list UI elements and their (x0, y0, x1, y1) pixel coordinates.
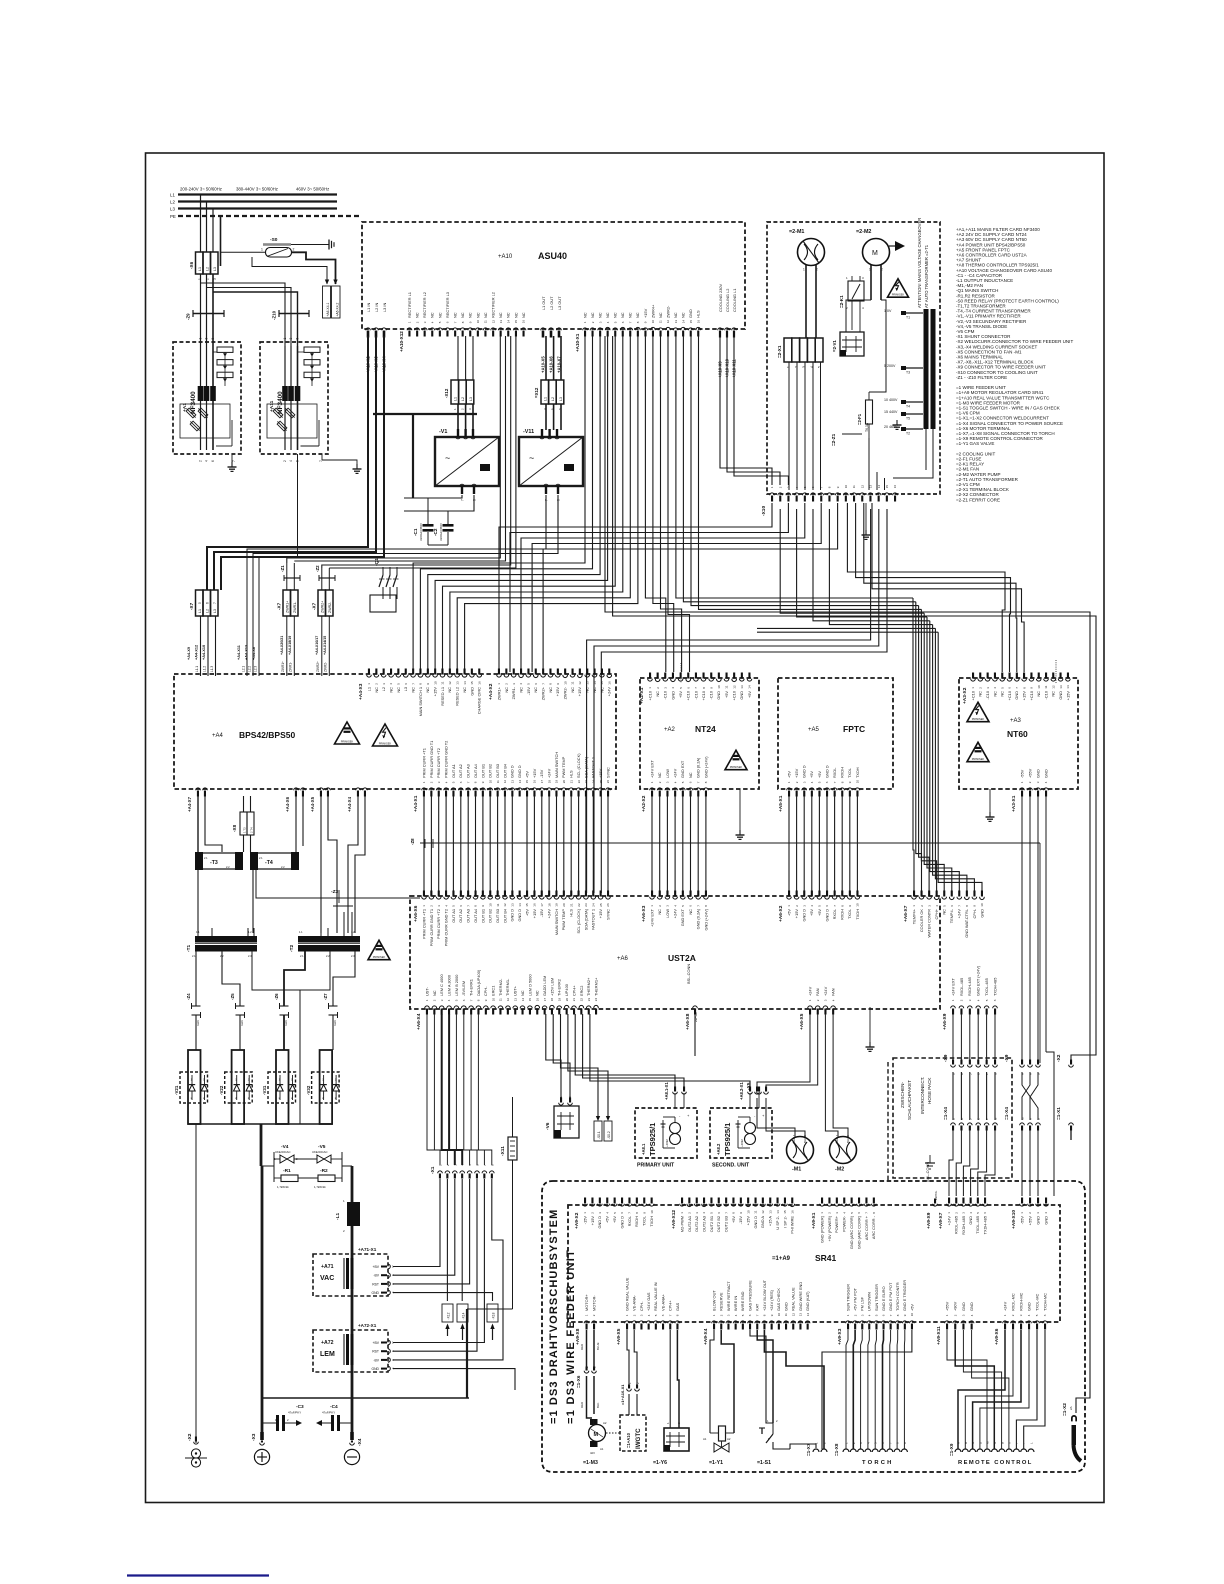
svg-text:RESERVE: RESERVE (719, 1292, 724, 1311)
svg-text:NC: NC (396, 687, 401, 693)
svg-text:+2092: +2092 (665, 1139, 669, 1147)
svg-text:16: 16 (893, 485, 897, 489)
svg-text:15: 15 (525, 903, 529, 907)
svg-text:GND: GND (469, 687, 474, 696)
svg-text:+A8.1-X1: +A8.1-X1 (664, 1082, 669, 1100)
svg-text:A1: A1 (600, 1447, 604, 1451)
svg-text:+15V: +15V (433, 687, 438, 697)
svg-text:10: 10 (717, 685, 721, 689)
weldcurrent socket -X2 (185, 1433, 207, 1467)
svg-text:16: 16 (533, 780, 537, 784)
svg-text:BPS42/BPS50: BPS42/BPS50 (239, 730, 295, 740)
wire ZWR1 drops (287, 563, 295, 590)
wires T1 to chokes (196, 951, 240, 1050)
svg-text:+55V: +55V (1027, 1216, 1032, 1226)
svg-text:THERM2+: THERM2+ (586, 977, 591, 996)
svg-text:MAIN SWITCH: MAIN SWITCH (554, 909, 559, 935)
svg-text:+24V EXT: +24V EXT (950, 978, 955, 996)
svg-text:=2-K1: =2-K1 (839, 295, 844, 308)
svg-text:-15V: -15V (539, 769, 544, 778)
mains switch -Q1 (370, 558, 399, 612)
svg-text:GND: GND (968, 1216, 973, 1225)
svg-text:12: 12 (448, 681, 452, 685)
wires X9 to A9-X7 (949, 1130, 995, 1196)
wire V11 out a (285, 495, 546, 549)
hatch mark (A3-X2) (1055, 660, 1057, 684)
svg-text:UP400: UP400 (564, 983, 569, 996)
wire L2 bus (178, 200, 337, 202)
connector +A4-X3 row (358, 669, 482, 717)
connector +A10-X12 row (399, 292, 526, 352)
svg-text:14: 14 (593, 681, 597, 685)
svg-text:-Z8: -Z8 (410, 838, 415, 845)
svg-text:ZWR1+: ZWR1+ (496, 686, 501, 700)
svg-text:GND: GND (1026, 1302, 1031, 1311)
svg-text:19: 19 (558, 998, 562, 1002)
svg-text:-V31: -V31 (262, 1085, 267, 1095)
thermo controller +A8.1 (primary) (635, 1108, 697, 1169)
cpm =2-V1 (832, 332, 864, 356)
svg-text:12: 12 (503, 903, 507, 907)
svg-text:-X14: -X14 (462, 1312, 466, 1319)
svg-text:+A4-X14/15: +A4-X14/15 (323, 636, 327, 655)
svg-text:2.1: 2.1 (259, 856, 263, 860)
connector +A9-X10 row (1011, 1198, 1048, 1230)
svg-text:=1-X4: =1-X4 (1004, 1107, 1010, 1120)
wires T3 path (198, 796, 420, 933)
svg-text:REAL VALUE: REAL VALUE (791, 1287, 796, 1311)
svg-text:-C2: -C2 (433, 528, 438, 536)
svg-text:+5V: +5V (612, 1216, 617, 1223)
svg-text:14: 14 (518, 903, 522, 907)
svg-text:NC: NC (475, 312, 480, 318)
wire -Z8 long link (410, 838, 1040, 1063)
svg-text:RST: RST (372, 1282, 379, 1286)
svg-text:BSL-CONN: BSL-CONN (925, 1162, 930, 1182)
svg-text:RXDH-485: RXDH-485 (967, 977, 972, 996)
svg-text:NC: NC (582, 312, 587, 318)
title WIRE FEEDER UNIT (565, 1249, 577, 1424)
connector +A5-X1 row (778, 765, 860, 812)
svg-text:+15V: +15V (532, 909, 537, 919)
svg-text:3300uF/450V: 3300uF/450V (419, 523, 423, 541)
svg-text:L2: L2 (170, 200, 175, 205)
svg-text:47uF/PKY: 47uF/PKY (322, 1411, 335, 1415)
svg-text:INTERCONNECT.: INTERCONNECT. (920, 1077, 925, 1114)
filter core -Z9 (186, 310, 225, 320)
svg-text:SECOND. UNIT: SECOND. UNIT (712, 1163, 750, 1169)
svg-text:14: 14 (681, 320, 685, 324)
capacitor -C2 (433, 511, 454, 545)
warning triangle (cooling) (888, 279, 909, 297)
connector +A4-X6 (285, 788, 305, 812)
svg-text:NC: NC (462, 687, 467, 693)
svg-text:+A6-X4.2: +A6-X4.2 (336, 302, 340, 316)
svg-text:NC: NC (620, 312, 625, 318)
svg-text:-15V: -15V (582, 1216, 587, 1225)
svg-text:+15V: +15V (555, 687, 560, 697)
svg-text:14: 14 (463, 681, 467, 685)
connector +A9-X6 row (994, 1292, 1047, 1345)
svg-text:+A9-X11: +A9-X11 (936, 1326, 942, 1345)
svg-text:13: 13 (740, 685, 744, 689)
wire NT60 gnd stub (989, 789, 991, 812)
svg-text:=2-M1: =2-M1 (789, 229, 804, 235)
wires Y1 up (710, 1330, 734, 1433)
svg-text:L2: L2 (206, 267, 210, 271)
wire PE drop (220, 216, 222, 266)
svg-text:11: 11 (659, 320, 663, 323)
svg-text:11: 11 (852, 485, 856, 488)
svg-text:=1-Y6: =1-Y6 (653, 1460, 667, 1466)
svg-text:-Z4: -Z4 (186, 993, 191, 1000)
capacitor -C4 (316, 1404, 352, 1431)
mains filter card +A11 NF3400 (260, 338, 328, 463)
svg-text:GADD LEM: GADD LEM (542, 976, 547, 996)
wires NT60 to X10 long (1022, 796, 1054, 1196)
svg-text:22: 22 (577, 903, 581, 907)
fan =2-M1 (789, 229, 825, 272)
connector +A6-X7 row (903, 891, 984, 938)
svg-text:18: 18 (547, 903, 551, 907)
svg-text:NT60: NT60 (1007, 729, 1028, 739)
ground (NT24) (736, 830, 745, 839)
wires cooling internals (789, 300, 933, 490)
svg-text:LOW: LOW (665, 769, 670, 778)
svg-text:TXDL-MC: TXDL-MC (1034, 1294, 1039, 1311)
svg-text:FASTOUT 1: FASTOUT 1 (591, 757, 596, 778)
svg-text:COOLER OK: COOLER OK (919, 909, 924, 933)
svg-text:+A6-X6: +A6-X6 (413, 905, 419, 922)
label +A5 FPTC (808, 724, 865, 734)
connector =1-X8 (834, 1442, 907, 1456)
svg-text:RESED L2: RESED L2 (455, 687, 460, 706)
svg-text:+A3: +A3 (1010, 718, 1022, 724)
wire horizontal weld bus (262, 1397, 469, 1399)
svg-text:+5V: +5V (747, 691, 752, 698)
svg-text:WIRE RETRACT: WIRE RETRACT (726, 1281, 731, 1311)
connector +A9-X5 row (616, 1277, 680, 1345)
svg-text:+A9-X9: +A9-X9 (926, 1212, 932, 1229)
svg-text:GND: GND (1014, 691, 1019, 700)
svg-text:NC: NC (688, 909, 693, 915)
svg-text:+A72-X1: +A72-X1 (358, 1323, 377, 1328)
svg-text:TXDL: TXDL (847, 908, 852, 919)
svg-text:M: M (872, 250, 878, 257)
svg-text:3: 3 (289, 338, 293, 340)
svg-text:4: 4 (205, 460, 209, 462)
svg-text:THERM1+: THERM1+ (593, 977, 598, 996)
svg-text:-X9: -X9 (1004, 1054, 1010, 1062)
svg-text:TH-ERR1: TH-ERR1 (469, 979, 474, 996)
svg-text:GND D: GND D (824, 765, 829, 778)
svg-text:NC: NC (437, 312, 442, 318)
primary rectifier -V1 (435, 429, 499, 501)
ground + cap (feeder entry) (925, 1155, 935, 1169)
svg-text:3: 3 (205, 338, 209, 340)
wire ZWR2 drops (322, 568, 330, 590)
svg-text:+24V: +24V (957, 909, 962, 919)
svg-text:12: 12 (732, 685, 736, 689)
svg-text:NC: NC (460, 312, 465, 318)
svg-text:GND D: GND D (510, 765, 515, 778)
svg-text:5: 5 (198, 602, 202, 604)
svg-text:ZWR2+: ZWR2+ (321, 601, 325, 613)
connector =1-X4 (right) (1004, 1107, 1041, 1131)
svg-text:NC: NC (518, 687, 523, 693)
svg-text:SCL (CLOCK): SCL (CLOCK) (576, 908, 581, 933)
svg-text:GND E TRIGGER: GND E TRIGGER (902, 1280, 907, 1311)
svg-text:+A3-X1: +A3-X1 (1011, 795, 1017, 812)
svg-text:TPS925/1: TPS925/1 (648, 1123, 657, 1156)
svg-text:Ferrit: Ferrit (197, 1020, 200, 1026)
svg-text:RXDL-485: RXDL-485 (959, 978, 964, 996)
svg-text:TXDH: TXDH (855, 767, 860, 778)
hatch mark (A2-X1) (680, 663, 682, 683)
svg-text:+A9-X5: +A9-X5 (616, 1328, 622, 1345)
svg-text:L3: L3 (559, 397, 563, 401)
svg-text:L3: L3 (469, 397, 473, 401)
svg-text:-X10: -X10 (761, 506, 767, 516)
svg-text:-V22: -V22 (219, 1085, 224, 1095)
svg-text:+5V (POWER): +5V (POWER) (827, 1215, 832, 1241)
svg-text:+A4-X13: +A4-X13 (245, 645, 249, 660)
svg-text:12: 12 (506, 998, 510, 1002)
wire feeder unit =1 (box) (542, 1181, 1085, 1472)
svg-text:CPH-: CPH- (639, 1301, 644, 1311)
svg-text:VE-ANA+: VE-ANA+ (660, 1294, 665, 1311)
svg-text:GND E EURO: GND E EURO (881, 1286, 886, 1311)
svg-text:4: 4 (289, 460, 293, 462)
svg-text:15: 15 (600, 681, 604, 685)
wire mid drop (260, 1124, 263, 1166)
svg-text:2: 2 (794, 366, 798, 368)
svg-text:TXDH-485: TXDH-485 (982, 1216, 987, 1234)
current transformer -T3 (195, 852, 243, 870)
wire motor leads (580, 1330, 600, 1418)
wires X12b to -V11 (546, 336, 561, 430)
svg-text:RECTIFIER L2: RECTIFIER L2 (491, 292, 496, 318)
svg-text:PWM TEMP: PWM TEMP (561, 909, 566, 931)
svg-text:L3 IN: L3 IN (382, 303, 387, 312)
wire L2 feed (214, 336, 376, 590)
svg-text:NC: NC (415, 312, 420, 318)
svg-text:AT AUTO TRANSFORMER =2-T1: AT AUTO TRANSFORMER =2-T1 (924, 244, 929, 308)
svg-text:A1: A1 (703, 1437, 707, 1441)
svg-text:25: 25 (599, 903, 603, 907)
svg-text:GND REAL VALUE: GND REAL VALUE (624, 1277, 629, 1311)
svg-text:20: 20 (562, 903, 566, 907)
svg-text:+A6-X7: +A6-X7 (903, 905, 909, 922)
current transformer -T4 (250, 852, 299, 870)
svg-text:+A5: +A5 (808, 727, 820, 733)
wire =1-X1 stub (1070, 1130, 1072, 1140)
svg-text:L2 OUT: L2 OUT (549, 296, 554, 310)
svg-text:13: 13 (455, 681, 459, 685)
wire weld minus (thick) (261, 1166, 264, 1440)
svg-text:-Z7: -Z7 (323, 993, 328, 1000)
svg-text:10: 10 (650, 1210, 654, 1214)
svg-text:GND: GND (371, 1291, 379, 1295)
svg-text:NC: NC (592, 687, 597, 693)
svg-text:16: 16 (697, 320, 701, 324)
weld connector =1-X2 (1062, 1403, 1083, 1461)
svg-text:19: 19 (555, 903, 559, 907)
svg-text:-M2: -M2 (835, 1167, 844, 1173)
svg-text:+A4-X11: +A4-X11 (237, 645, 241, 660)
svg-text:24: 24 (592, 903, 596, 907)
svg-text:2: 2 (293, 248, 295, 252)
svg-text:IWGTC: IWGTC (635, 1428, 642, 1449)
wire weld to feeder (467, 1308, 513, 1310)
svg-text:NC: NC (513, 312, 518, 318)
terminal -X11 (500, 1137, 517, 1160)
wire L3 drop (212, 209, 214, 253)
svg-text:1,7kW/2k: 1,7kW/2k (314, 1185, 326, 1189)
svg-text:THERM1-: THERM1- (505, 978, 510, 996)
svg-text:ZWR2+: ZWR2+ (541, 686, 546, 700)
svg-text:+A4-X3: +A4-X3 (358, 683, 364, 700)
svg-text:=1-M3: =1-M3 (583, 1460, 598, 1466)
svg-text:GND A: GND A (760, 1216, 765, 1229)
svg-text:RECTIFIER L1: RECTIFIER L1 (407, 292, 412, 318)
svg-text:1: 1 (261, 248, 263, 252)
svg-text:16: 16 (477, 681, 481, 685)
svg-text:2A: 2A (1069, 1406, 1073, 1410)
svg-text:+15V LEM: +15V LEM (549, 978, 554, 996)
svg-text:22: 22 (577, 780, 581, 784)
terminal -X7 (ZWR2) (312, 590, 334, 616)
60V supply card +A3 NT60 (box) (959, 678, 1078, 789)
svg-text:=1-X4: =1-X4 (943, 1107, 949, 1120)
cpm =1-Y6 (653, 1422, 689, 1466)
svg-text:GND (+24V): GND (+24V) (703, 908, 708, 930)
svg-text:NC: NC (504, 687, 509, 693)
svg-text:+15 A: +15 A (768, 1216, 773, 1226)
svg-text:NC: NC (992, 691, 997, 697)
wire -S0 pin2 to label X4.2 (292, 252, 336, 284)
mains filter card +A1 NF3400 (173, 338, 241, 463)
svg-text:ARC CORR -: ARC CORR - (871, 1215, 876, 1239)
node reference +A6-X4.1 / +A6-X4.2 boxed labels (323, 280, 341, 319)
svg-text:13: 13 (513, 998, 517, 1002)
svg-text:11: 11 (484, 320, 488, 323)
ground (UST2A) (866, 1042, 875, 1051)
svg-text:10: 10 (844, 485, 848, 489)
connector stubs +A10-X5 X6 X7 (541, 296, 563, 373)
svg-text:14: 14 (518, 780, 522, 784)
svg-text:OUT A4: OUT A4 (473, 763, 478, 778)
svg-text:+5V: +5V (524, 771, 529, 778)
warning triangle (NT60 b) (967, 742, 989, 761)
svg-text:+A4-X8: +A4-X8 (252, 647, 256, 660)
svg-text:+24V: +24V (807, 986, 812, 996)
svg-text:=1-Y1 GAS VALVE: =1-Y1 GAS VALVE (956, 441, 994, 446)
svg-text:=1-X8: =1-X8 (834, 1443, 839, 1456)
svg-text:PRIM/SEK: PRIM/SEK (379, 742, 392, 746)
svg-text:L3: L3 (170, 207, 175, 212)
svg-text:A2: A2 (603, 1421, 607, 1425)
svg-text:NC: NC (688, 772, 693, 778)
terminal -X8 (232, 812, 254, 835)
svg-text:GND (0.2A): GND (0.2A) (696, 757, 701, 778)
svg-text:UST2A: UST2A (668, 953, 696, 963)
svg-text:10: 10 (651, 320, 655, 324)
svg-text:OUT A2: OUT A2 (458, 909, 463, 923)
svg-text:L2 IN: L2 IN (374, 303, 379, 312)
svg-text:OUT A1: OUT A1 (451, 764, 456, 778)
svg-text:GND: GND (979, 909, 984, 918)
svg-text:-Z10: -Z10 (272, 310, 277, 320)
svg-text:=X12: =X12 (534, 387, 539, 398)
svg-text:DADA (UP400): DADA (UP400) (476, 969, 481, 996)
svg-text:16: 16 (536, 998, 540, 1002)
svg-text:-Z6: -Z6 (274, 993, 279, 1000)
connector stubs +A10-X2 X3 X4 (366, 303, 388, 373)
svg-text:GND WAT.CTRL: GND WAT.CTRL (964, 908, 969, 938)
wires -X7 to +A4 (201, 616, 330, 676)
svg-text:ASU40: ASU40 (538, 251, 567, 261)
svg-text:-X2: -X2 (1056, 1054, 1062, 1062)
svg-text:+A10: +A10 (498, 254, 513, 260)
svg-text:=1+A10: =1+A10 (626, 1432, 631, 1448)
svg-text:11: 11 (571, 681, 575, 684)
warning triangle (BPS 2) (373, 724, 398, 746)
svg-text:+A71-X1: +A71-X1 (358, 1247, 377, 1252)
svg-text:NC: NC (411, 687, 416, 693)
svg-text:-15V: -15V (526, 687, 531, 696)
svg-text:+A9-X1: +A9-X1 (811, 1212, 817, 1229)
svg-text:RECTIFIER L3: RECTIFIER L3 (445, 292, 450, 318)
svg-text:-X6: -X6 (189, 261, 194, 269)
svg-text:+5V: +5V (809, 771, 814, 778)
svg-text:UST+: UST+ (513, 985, 518, 996)
svg-text:ZWR1-: ZWR1- (289, 662, 293, 672)
svg-text:+A9-X7: +A9-X7 (938, 1212, 944, 1229)
svg-text:OUT B2: OUT B2 (488, 764, 493, 778)
wires X5 to fans (757, 1014, 848, 1137)
motor regulator card =1+A9 SR41 (box) (568, 1205, 1060, 1322)
svg-text:21: 21 (569, 780, 573, 784)
svg-text:=1-X9: =1-X9 (949, 1443, 954, 1456)
svg-text:6: 6 (206, 602, 210, 604)
svg-text:+5V: +5V (817, 909, 822, 916)
svg-text:+A8.1: +A8.1 (641, 1143, 646, 1155)
svg-text:+A10-X12: +A10-X12 (399, 331, 404, 352)
svg-text:UST-: UST- (424, 986, 429, 996)
svg-text:-X2: -X2 (187, 1433, 193, 1441)
svg-text:RXDH-MC: RXDH-MC (1018, 1292, 1023, 1311)
wire labels above +A4 edge (187, 636, 328, 672)
svg-text:GND: GND (739, 691, 744, 700)
svg-text:NC: NC (483, 312, 488, 318)
svg-text:GND (KAT): GND (KAT) (805, 1291, 810, 1311)
svg-text:NC: NC (605, 312, 610, 318)
svg-text:OUT B1: OUT B1 (480, 764, 485, 778)
svg-text:NC: NC (673, 312, 678, 318)
svg-text:+15V: +15V (577, 687, 582, 697)
svg-text:OUT A1: OUT A1 (451, 909, 456, 923)
wires hose pack crossover (1022, 1072, 1038, 1120)
svg-text:10: 10 (476, 320, 480, 324)
svg-text:-X1: -X1 (430, 1166, 436, 1174)
svg-text:GND: GND (371, 1367, 379, 1371)
svg-text:HOSE PACK: HOSE PACK (927, 1077, 932, 1104)
svg-text:L1: L1 (198, 609, 202, 613)
svg-text:1,7kW/2k: 1,7kW/2k (277, 1185, 289, 1189)
svg-text:SDA (DATA): SDA (DATA) (583, 908, 588, 930)
svg-text:NC: NC (533, 687, 538, 693)
